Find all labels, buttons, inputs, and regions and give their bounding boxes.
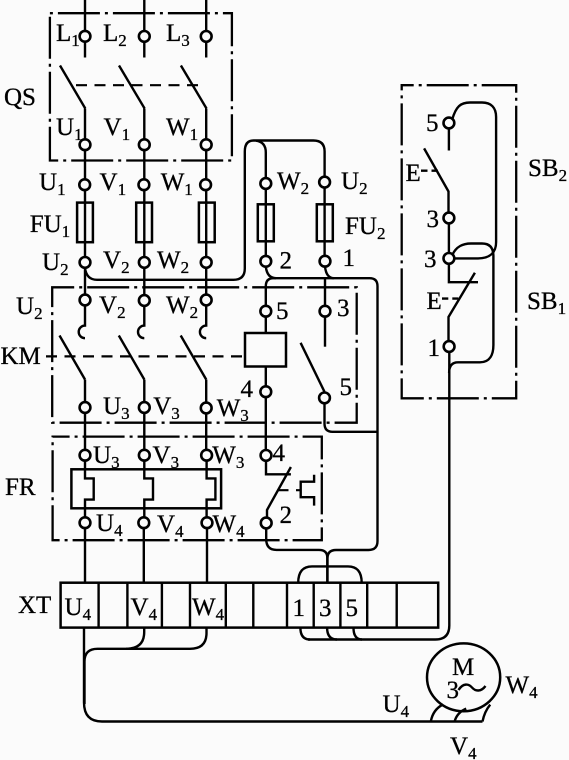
KM pole 2 lower wire: [143, 380, 145, 456]
wire control bus with drop to coil and run to XT: [266, 278, 378, 583]
svg-text:L2: L2: [103, 20, 127, 50]
motor lead ear 2: [455, 709, 467, 722]
svg-text:W4: W4: [506, 672, 539, 702]
KM pole 3 fixed contact and hook: [200, 305, 206, 338]
switch QS pole 2 blade: [119, 66, 145, 109]
svg-text:2: 2: [280, 502, 293, 529]
wire control bundle to button station: [308, 352, 449, 640]
coil terminal 4: [260, 386, 271, 397]
terminal W2 control: [260, 178, 271, 189]
KM aux contact blade: [301, 343, 325, 392]
svg-text:5: 5: [346, 595, 359, 622]
terminal W1 inside QS: [201, 139, 212, 150]
svg-text:4: 4: [241, 376, 254, 403]
svg-text:1: 1: [428, 335, 441, 362]
contactor KM coil: [245, 333, 286, 367]
wire strand 5 below XT: [354, 628, 363, 640]
svg-text:3: 3: [337, 295, 350, 322]
wire 4 down to FR: [265, 397, 267, 450]
terminal U2 main: [80, 257, 91, 268]
wire 5 to coil: [265, 317, 267, 333]
SB2 loop wire: [452, 103, 496, 259]
svg-text:W4: W4: [192, 594, 225, 624]
SB1 actuator dashes: [442, 297, 458, 299]
svg-text:5: 5: [426, 110, 439, 137]
wire node 1 to control bus: [325, 267, 334, 279]
terminal W2 main: [201, 257, 212, 268]
wire aux 5 to node 1 run: [325, 403, 378, 432]
svg-text:4: 4: [273, 440, 286, 467]
terminal W3 at FR: [201, 450, 212, 461]
KM pole 1 fixed contact and hook: [79, 305, 85, 338]
KM pole 2 blade: [119, 336, 145, 380]
svg-text:XT: XT: [18, 592, 51, 619]
terminal 3 SB2: [444, 213, 455, 224]
wire U4 from FR to XT: [84, 528, 86, 583]
wire V2 main down to KM: [143, 268, 145, 295]
wire supply L2 column: [143, 0, 145, 257]
svg-text:W2: W2: [157, 247, 189, 277]
wire 3 to 3 between buttons: [448, 223, 450, 253]
terminal U2 control: [319, 177, 330, 188]
svg-text:E: E: [406, 160, 421, 187]
wire supply L1 column: [84, 0, 86, 257]
svg-text:L1: L1: [56, 20, 80, 50]
fuse FU1 phase 1: [77, 203, 93, 243]
wire coil to terminal 4: [265, 367, 267, 387]
motor tilde: [459, 685, 486, 691]
FR release bracket: [301, 475, 314, 506]
wire V4 strand below XT: [126, 628, 144, 649]
node 2 terminal: [260, 256, 271, 267]
switch QS pole 3 blade: [181, 66, 207, 109]
FR heater element phase 1: [85, 461, 94, 518]
terminal 3 SB1: [444, 253, 455, 264]
svg-text:1: 1: [343, 245, 356, 272]
XT cell dividers: [99, 583, 397, 628]
svg-text:V2: V2: [99, 292, 126, 322]
fuse FU2 left: [258, 204, 274, 241]
svg-text:V4: V4: [450, 733, 477, 760]
svg-text:KM: KM: [1, 343, 41, 370]
svg-text:SB1: SB1: [527, 288, 566, 318]
SB2 fixed wire from 5: [448, 128, 450, 150]
FR heater element phase 3: [207, 461, 216, 518]
SB2 actuator dashes: [421, 169, 438, 171]
svg-text:W4: W4: [213, 511, 246, 541]
wire U4 below XT to motor: [84, 628, 483, 722]
svg-text:3: 3: [427, 206, 440, 233]
terminal 4 at FR: [261, 450, 272, 461]
terminal U2 at KM: [80, 295, 91, 306]
SB1 blade: [449, 273, 475, 341]
svg-text:V3: V3: [153, 442, 180, 472]
FR NC actuator dashes: [278, 489, 302, 491]
terminal L2: [139, 31, 150, 42]
terminal U3 at KM: [80, 402, 91, 413]
motor M circle: [427, 643, 500, 711]
svg-text:1: 1: [293, 595, 306, 622]
SB1 loop wire: [449, 244, 493, 374]
node 1 terminal: [320, 256, 331, 267]
aux terminal 3: [320, 306, 331, 317]
terminal 5 SB2: [444, 118, 455, 129]
wire U2 control down through fuse: [323, 188, 325, 256]
svg-text:L3: L3: [166, 20, 190, 50]
svg-text:U3: U3: [103, 393, 130, 423]
svg-text:U2: U2: [42, 249, 69, 279]
terminal U1 inside QS: [80, 139, 91, 150]
terminal 1 SB1: [444, 341, 455, 352]
svg-text:W2: W2: [166, 292, 198, 322]
motor lead ear 3: [483, 705, 491, 722]
wire 2 from FR to XT bundle: [266, 528, 327, 557]
svg-text:E: E: [427, 288, 442, 315]
svg-text:U2: U2: [341, 168, 368, 198]
fuse FU1 phase 2: [136, 203, 152, 243]
aux terminal 5 lower: [319, 393, 330, 404]
switch QS pole 1 blade: [60, 66, 85, 109]
contactor KM coupling link: [46, 355, 243, 357]
terminal U1 below QS: [79, 179, 90, 190]
svg-text:W1: W1: [166, 114, 198, 144]
svg-text:U4: U4: [65, 594, 92, 624]
contactor KM enclosure: [52, 287, 357, 422]
coil terminal 5: [260, 306, 271, 317]
terminal V2 main: [139, 257, 150, 268]
svg-text:QS: QS: [4, 84, 36, 111]
svg-text:U3: U3: [93, 442, 120, 472]
wire W4 strand and bundle below XT: [85, 628, 207, 704]
terminal block XT outline: [61, 583, 439, 628]
terminal V1 below QS: [139, 179, 150, 190]
KM pole 3 blade: [181, 336, 207, 380]
terminal V3 at KM: [139, 402, 150, 413]
svg-text:FU1: FU1: [30, 211, 70, 241]
svg-text:U1: U1: [39, 169, 66, 199]
svg-text:V1: V1: [104, 114, 131, 144]
thermal relay FR enclosure: [53, 437, 322, 541]
terminal U3 at FR: [80, 450, 91, 461]
svg-text:U4: U4: [96, 510, 123, 540]
wire strand 1 below XT: [300, 628, 310, 640]
svg-text:SB2: SB2: [528, 155, 567, 185]
button station SB enclosure: [402, 85, 517, 398]
svg-text:3: 3: [319, 595, 332, 622]
svg-text:5: 5: [276, 298, 289, 325]
KM pole 2 fixed contact and hook: [138, 305, 144, 338]
terminal 2 at FR: [261, 518, 272, 529]
svg-text:W2: W2: [277, 168, 309, 198]
FR NC contact fixed wire and bar: [266, 461, 291, 475]
wire control tap from U2 to riser: [85, 141, 325, 280]
svg-text:5: 5: [340, 374, 353, 401]
terminal V4 at FR: [138, 517, 149, 528]
terminal W4 at FR: [202, 517, 213, 528]
terminal W3 at KM: [201, 403, 212, 414]
svg-text:U1: U1: [56, 114, 83, 144]
fuse FU1 phase 3: [199, 203, 215, 243]
svg-text:FU2: FU2: [345, 213, 385, 243]
terminal W1 below QS: [200, 179, 211, 190]
terminal W2 at KM: [201, 295, 212, 306]
svg-text:FR: FR: [5, 474, 36, 501]
KM pole 3 lower wire: [205, 380, 207, 456]
motor lead ear 1: [431, 705, 443, 722]
XT bundle neck: [326, 553, 328, 583]
svg-text:V2: V2: [103, 247, 130, 277]
KM pole 1 lower wire: [84, 380, 86, 456]
disconnect switch QS enclosure: [50, 13, 232, 160]
KM pole 1 blade: [60, 336, 86, 380]
wire supply L3 column: [205, 0, 207, 257]
SB1 fixed wire and bar: [449, 264, 478, 282]
svg-text:W3: W3: [212, 442, 244, 472]
terminal V3 at FR: [139, 450, 150, 461]
svg-text:V1: V1: [100, 169, 127, 199]
svg-text:U2: U2: [16, 293, 43, 323]
wire drop to aux contact 3: [324, 278, 326, 306]
terminal V2 at KM: [139, 295, 150, 306]
svg-text:2: 2: [280, 248, 293, 275]
terminal L3: [201, 31, 212, 42]
wire node 2 to control bus: [266, 267, 276, 279]
wire U2 main down to KM: [84, 268, 86, 295]
svg-text:3: 3: [447, 677, 460, 704]
switch QS coupling link: [76, 84, 198, 86]
terminal U4 at FR: [80, 517, 91, 528]
svg-text:U4: U4: [383, 691, 410, 721]
wire V4 from FR to XT: [143, 528, 145, 583]
wire strand 3 below XT: [327, 628, 337, 640]
svg-text:W1: W1: [161, 169, 193, 199]
FR heater housing: [71, 469, 221, 508]
wire W2 main down to KM: [205, 268, 207, 295]
FR heater element phase 2: [144, 461, 153, 518]
wire branch to W2 control: [256, 141, 266, 256]
SB2 blade: [424, 148, 448, 212]
terminal V1 inside QS: [139, 139, 150, 150]
FR NC contact blade: [267, 467, 291, 518]
XT bundle arch above block: [298, 566, 362, 582]
svg-text:V3: V3: [153, 393, 180, 423]
wire W4 from FR to XT: [206, 528, 208, 583]
svg-text:V4: V4: [131, 594, 158, 624]
fuse FU2 right: [317, 204, 333, 241]
KM aux contact fixed wire: [324, 317, 326, 347]
terminal L1: [80, 31, 91, 42]
svg-text:V4: V4: [157, 511, 184, 541]
svg-text:3: 3: [424, 246, 437, 273]
